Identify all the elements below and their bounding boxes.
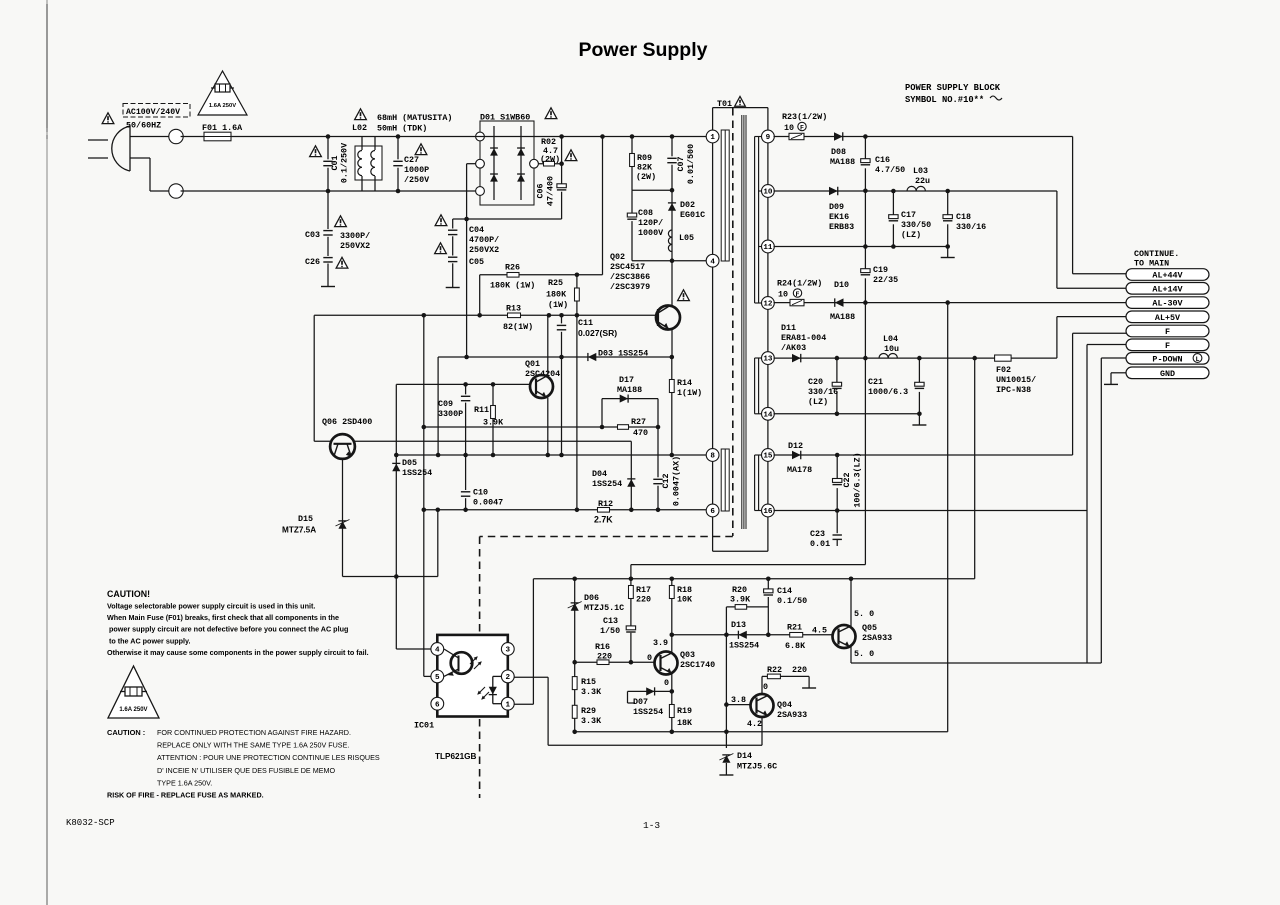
svg-text:82K: 82K [637,163,653,173]
svg-text:R14: R14 [677,378,692,388]
svg-text:3300P/: 3300P/ [340,231,370,241]
svg-text:2.7K: 2.7K [594,515,613,525]
svg-text:D09: D09 [829,202,844,212]
svg-text:C04: C04 [469,225,484,235]
svg-text:Otherwise it may cause some co: Otherwise it may cause some components i… [107,648,369,657]
svg-text:L04: L04 [883,334,898,344]
svg-text:R17: R17 [636,585,651,595]
svg-text:180K: 180K [546,290,567,300]
svg-text:AL+44V: AL+44V [1152,271,1183,281]
svg-text:C16: C16 [875,155,890,165]
svg-text:D15: D15 [298,514,313,524]
svg-text:C01: C01 [330,155,340,170]
svg-text:D14: D14 [737,751,752,761]
svg-text:POWER SUPPLY BLOCK: POWER SUPPLY BLOCK [905,83,1001,93]
svg-text:(LZ): (LZ) [901,230,921,240]
svg-text:5. 0: 5. 0 [854,609,874,619]
svg-text:1SS254: 1SS254 [729,641,759,651]
svg-text:R11: R11 [474,405,489,415]
svg-text:1(1W): 1(1W) [677,388,702,398]
svg-text:Power Supply: Power Supply [579,39,708,61]
svg-text:C11: C11 [578,318,593,328]
svg-text:4: 4 [435,647,440,655]
svg-text:/250V: /250V [404,175,430,185]
svg-text:2SA933: 2SA933 [862,633,892,643]
svg-text:to the AC power supply.: to the AC power supply. [107,636,190,645]
svg-text:IC01: IC01 [414,721,434,731]
svg-text:AL+14V: AL+14V [1152,284,1183,294]
svg-text:D02: D02 [680,200,695,210]
svg-text:18K: 18K [677,718,693,728]
svg-text:/2SC3979: /2SC3979 [610,282,650,292]
svg-text:ERB83: ERB83 [829,222,854,232]
svg-text:MA188: MA188 [617,385,642,395]
svg-text:D' INCEIE N' UTILISER QUE DES: D' INCEIE N' UTILISER QUE DES FUSIBLE DE… [157,766,335,775]
svg-text:C10: C10 [473,488,488,498]
svg-text:6: 6 [435,701,440,709]
svg-text:0.1/50: 0.1/50 [777,596,807,606]
svg-text:4700P/: 4700P/ [469,235,499,245]
svg-text:TLP621GB: TLP621GB [435,752,476,761]
svg-text:9: 9 [766,134,771,142]
svg-text:22u: 22u [915,176,930,186]
svg-text:R27: R27 [631,417,646,427]
svg-text:3.8: 3.8 [731,695,746,705]
svg-text:L: L [1195,356,1199,364]
svg-text:D08: D08 [831,147,846,157]
svg-text:D03 1SS254: D03 1SS254 [598,349,648,359]
svg-text:3: 3 [506,647,511,655]
svg-text:D05: D05 [402,458,417,468]
svg-text:3.9K: 3.9K [730,595,751,605]
svg-text:C19: C19 [873,265,888,275]
svg-text:Q02: Q02 [610,252,625,262]
svg-text:C05: C05 [469,257,484,267]
svg-text:C14: C14 [777,586,792,596]
svg-text:R26: R26 [505,263,520,273]
svg-text:D06: D06 [584,593,599,603]
svg-text:1.6A 250V: 1.6A 250V [119,707,147,713]
svg-text:330/16: 330/16 [956,222,986,232]
svg-text:0.01/500: 0.01/500 [686,144,696,184]
svg-text:1SS254: 1SS254 [592,479,622,489]
svg-text:D12: D12 [788,441,803,451]
svg-text:MTZJ5.6C: MTZJ5.6C [737,762,777,772]
svg-text:330/50: 330/50 [901,220,931,230]
svg-text:(2W): (2W) [636,172,656,182]
svg-text:C08: C08 [638,208,653,218]
svg-text:1SS254: 1SS254 [633,707,663,717]
svg-text:ERA81-004: ERA81-004 [781,333,826,343]
svg-text:5. 0: 5. 0 [854,649,874,659]
svg-text:(1W): (1W) [548,300,568,310]
svg-text:MA188: MA188 [830,312,855,322]
svg-text:C07: C07 [676,156,686,171]
svg-text:L03: L03 [913,166,928,176]
svg-text:F02: F02 [996,365,1011,375]
svg-text:R19: R19 [677,706,692,716]
svg-text:330/16: 330/16 [808,387,838,397]
svg-text:250VX2: 250VX2 [469,245,499,255]
svg-text:0.0047: 0.0047 [473,498,503,508]
svg-text:R21: R21 [787,623,802,633]
svg-text:6.8K: 6.8K [785,641,806,651]
svg-text:D11: D11 [781,323,796,333]
svg-text:F01 1.6A: F01 1.6A [202,123,243,133]
svg-text:Q01: Q01 [525,359,540,369]
svg-text:C27: C27 [404,155,419,165]
svg-text:C21: C21 [868,377,883,387]
svg-text:RISK OF FIRE - REPLACE FUSE AS: RISK OF FIRE - REPLACE FUSE AS MARKED. [107,791,264,800]
svg-text:8: 8 [710,453,715,461]
svg-text:4: 4 [710,258,715,266]
svg-text:4.7/50: 4.7/50 [875,165,905,175]
svg-text:P-DOWN: P-DOWN [1152,354,1182,364]
svg-text:R29: R29 [581,706,596,716]
svg-text:R24(1/2W): R24(1/2W) [777,279,822,289]
svg-text:C12: C12 [661,473,671,488]
svg-text:10K: 10K [677,595,693,605]
svg-text:F: F [796,291,800,298]
svg-text:C13: C13 [603,616,618,626]
svg-text:SYMBOL NO.#10**: SYMBOL NO.#10** [905,95,984,105]
svg-text:R09: R09 [637,153,652,163]
svg-text:Q05: Q05 [862,623,877,633]
svg-text:AL-30V: AL-30V [1152,299,1183,309]
svg-text:220: 220 [792,665,807,675]
svg-text:/2SC3866: /2SC3866 [610,272,650,282]
svg-text:0: 0 [647,653,652,663]
svg-text:1: 1 [506,701,511,709]
svg-text:0: 0 [664,678,669,688]
svg-text:IPC-N38: IPC-N38 [996,385,1031,395]
svg-text:4.2: 4.2 [747,719,762,729]
svg-text:D13: D13 [731,620,746,630]
svg-text:82(1W): 82(1W) [503,322,533,332]
svg-text:68mH (MATUSITA): 68mH (MATUSITA) [377,113,452,123]
svg-text:10: 10 [763,189,773,197]
svg-text:CAUTION!: CAUTION! [107,589,150,599]
svg-text:1SS254: 1SS254 [402,468,432,478]
svg-text:3.9: 3.9 [653,638,668,648]
svg-text:0.01: 0.01 [810,539,830,549]
svg-text:(2W): (2W) [540,155,560,165]
svg-text:R13: R13 [506,304,521,314]
svg-text:C03: C03 [305,230,320,240]
svg-text:1000V: 1000V [638,228,664,238]
svg-text:0.0047(AX): 0.0047(AX) [672,456,682,506]
svg-text:0: 0 [763,682,768,692]
svg-text:EK16: EK16 [829,212,849,222]
svg-text:2SC4517: 2SC4517 [610,262,645,272]
svg-text:MTZ7.5A: MTZ7.5A [282,526,316,535]
svg-text:R18: R18 [677,585,692,595]
svg-text:0.027(SR): 0.027(SR) [578,328,617,338]
svg-text:R20: R20 [732,585,747,595]
svg-text:15: 15 [763,453,773,461]
svg-text:D17: D17 [619,375,634,385]
svg-text:Voltage selectorable power sup: Voltage selectorable power supply circui… [107,602,315,611]
svg-text:C09: C09 [438,399,453,409]
svg-text:ATTENTION : POUR UNE PROTECTIO: ATTENTION : POUR UNE PROTECTION CONTINUE… [157,753,380,762]
svg-text:3.3K: 3.3K [581,716,602,726]
svg-text:GND: GND [1160,369,1175,379]
svg-text:12: 12 [763,301,773,309]
svg-text:1000P: 1000P [404,165,429,175]
svg-text:0.1/250V: 0.1/250V [340,142,350,183]
svg-text:power supply circuit are not d: power supply circuit are not defective b… [107,625,348,634]
svg-text:/AK03: /AK03 [781,343,806,353]
svg-text:When Main Fuse (F01) breaks, f: When Main Fuse (F01) breaks, first check… [107,613,339,622]
svg-text:TYPE 1.6A 250V.: TYPE 1.6A 250V. [157,778,212,787]
svg-text:220: 220 [597,652,612,662]
svg-text:AC100V/240V: AC100V/240V [126,107,180,117]
svg-text:C18: C18 [956,212,971,222]
svg-text:MA188: MA188 [830,157,855,167]
svg-text:F: F [1165,341,1170,351]
svg-text:R12: R12 [598,499,613,509]
svg-text:TO MAIN: TO MAIN [1134,259,1169,269]
svg-text:R25: R25 [548,278,563,288]
svg-text:FOR CONTINUED PROTECTION AGAIN: FOR CONTINUED PROTECTION AGAINST FIRE HA… [157,728,351,737]
svg-text:3300P: 3300P [438,409,463,419]
svg-text:R23(1/2W): R23(1/2W) [782,112,827,122]
svg-text:MA178: MA178 [787,465,812,475]
svg-text:F: F [1165,327,1170,337]
svg-text:C17: C17 [901,210,916,220]
svg-text:1/50: 1/50 [600,626,620,636]
svg-text:K8032-SCP: K8032-SCP [66,818,115,828]
svg-text:10u: 10u [884,344,899,354]
svg-text:C06: C06 [536,183,546,198]
svg-text:D04: D04 [592,469,607,479]
svg-text:10: 10 [784,123,794,133]
svg-text:2SA933: 2SA933 [777,710,807,720]
svg-text:Q06 2SD400: Q06 2SD400 [322,417,372,427]
svg-text:100/6.3(LZ): 100/6.3(LZ) [853,452,863,507]
svg-text:4.5: 4.5 [812,626,827,636]
svg-text:10: 10 [778,290,788,300]
svg-text:50/60HZ: 50/60HZ [126,121,161,131]
svg-text:3.3K: 3.3K [581,687,602,697]
svg-text:REPLACE ONLY WITH THE SAME TYP: REPLACE ONLY WITH THE SAME TYPE 1.6A 250… [157,741,349,750]
svg-text:D10: D10 [834,280,849,290]
svg-text:180K (1W): 180K (1W) [490,281,535,291]
svg-text:C23: C23 [810,529,825,539]
svg-text:2: 2 [506,674,511,682]
svg-text:C22: C22 [842,472,852,487]
svg-text:R22: R22 [767,665,782,675]
svg-text:L05: L05 [679,233,694,243]
svg-text:250VX2: 250VX2 [340,241,370,251]
svg-text:14: 14 [763,411,773,419]
svg-text:EG01C: EG01C [680,210,705,220]
svg-text:6: 6 [710,508,715,516]
svg-text:Q04: Q04 [777,700,792,710]
svg-text:2SC1740: 2SC1740 [680,660,715,670]
svg-text:UN10015/: UN10015/ [996,375,1036,385]
svg-text:L02: L02 [352,123,367,133]
svg-text:F: F [800,124,804,131]
svg-text:120P/: 120P/ [638,218,663,228]
svg-text:R16: R16 [595,642,610,652]
svg-text:50mH (TDK): 50mH (TDK) [377,124,427,134]
svg-text:MTZJ5.1C: MTZJ5.1C [584,603,624,613]
svg-text:13: 13 [763,356,773,364]
svg-text:1: 1 [710,134,715,142]
svg-text:CONTINUE.: CONTINUE. [1134,249,1179,259]
svg-text:(LZ): (LZ) [808,397,828,407]
svg-text:AL+5V: AL+5V [1155,313,1181,323]
svg-text:220: 220 [636,595,651,605]
svg-text:R15: R15 [581,677,596,687]
svg-text:C20: C20 [808,377,823,387]
svg-text:1-3: 1-3 [643,820,660,831]
svg-text:470: 470 [633,428,648,438]
svg-text:D07: D07 [633,697,648,707]
svg-text:C26: C26 [305,257,320,267]
svg-text:CAUTION :: CAUTION : [107,728,145,737]
svg-text:Q03: Q03 [680,650,695,660]
svg-text:1000/6.3: 1000/6.3 [868,387,908,397]
svg-text:16: 16 [763,508,773,516]
svg-text:1.6A 250V: 1.6A 250V [209,103,236,109]
svg-text:47/400: 47/400 [546,176,556,206]
svg-text:5: 5 [435,674,440,682]
svg-text:22/35: 22/35 [873,275,898,285]
svg-text:11: 11 [763,244,773,252]
